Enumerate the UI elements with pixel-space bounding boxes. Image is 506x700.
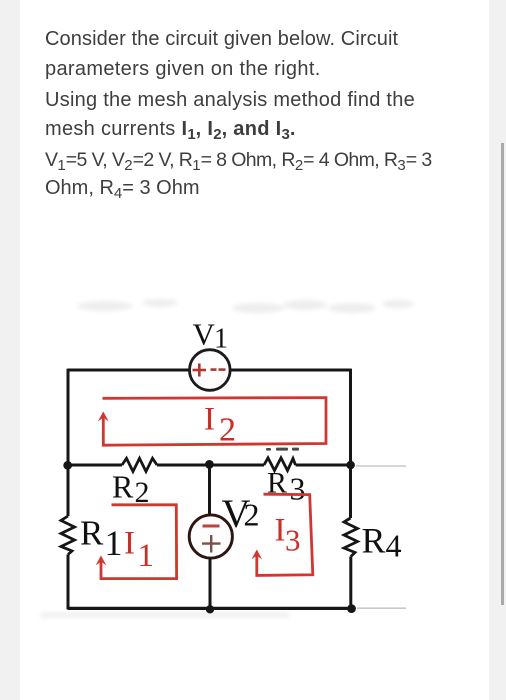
svg-text:R: R [80, 514, 104, 553]
svg-text:1: 1 [105, 523, 123, 563]
arrowhead I1 [96, 556, 107, 566]
wire left vertical lower [67, 555, 70, 610]
svg-text:V: V [193, 317, 216, 352]
wire right vertical upper [349, 369, 352, 518]
wire top-left horizontal [68, 369, 189, 372]
resistor R3 [264, 458, 296, 471]
gray stub wire right-bottom [357, 607, 406, 609]
arrowhead I2 [98, 412, 109, 422]
node center-bottom [206, 605, 214, 613]
V2 polarity plus [202, 535, 221, 553]
svg-text:3: 3 [290, 471, 306, 507]
node left-middle [63, 461, 72, 470]
svg-text:I: I [204, 402, 215, 438]
wire left vertical [67, 369, 70, 516]
resistor R2 [122, 458, 157, 471]
wire top-right horizontal [231, 369, 351, 372]
svg-text:1: 1 [138, 538, 155, 574]
svg-text:I: I [124, 526, 135, 562]
svg-text:2: 2 [219, 412, 236, 449]
voltage source V1 [190, 350, 231, 391]
svg-text:I: I [275, 513, 286, 549]
node center-middle [205, 460, 214, 469]
gray stub wire right-middle [356, 465, 406, 467]
node right-bottom [347, 604, 356, 613]
mesh loop I3 [257, 494, 313, 575]
svg-text:R: R [112, 469, 134, 505]
svg-text:R: R [362, 521, 386, 561]
V2 polarity minus [203, 525, 220, 528]
mesh loop I2 [103, 398, 327, 446]
wire between R2 and R3 [157, 464, 264, 467]
resistor R1 [61, 516, 75, 555]
arrowhead I3 [251, 550, 262, 560]
wire middle horizontal (row y=465) [68, 464, 122, 467]
svg-text:1: 1 [214, 324, 228, 355]
resistor R4 [344, 518, 358, 557]
V1 polarity minus [211, 368, 226, 371]
wire middle vertical lower [209, 558, 212, 610]
wire middle vertical upper [208, 465, 211, 515]
voltage source V2 [189, 515, 232, 558]
smudge marks above R3 [266, 448, 299, 451]
wire bottom horizontal [68, 607, 351, 610]
wire right vertical lower [349, 557, 352, 610]
node right-middle [346, 461, 355, 470]
wire right of R3 [296, 464, 351, 467]
svg-text:4: 4 [386, 528, 402, 564]
svg-text:3: 3 [285, 523, 301, 558]
svg-text:2: 2 [244, 497, 260, 533]
V1 polarity plus [193, 364, 207, 377]
mesh loop I1 [101, 505, 177, 579]
